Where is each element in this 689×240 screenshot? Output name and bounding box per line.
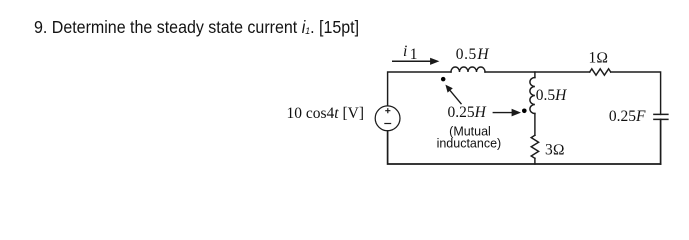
voltage source minus sign bbox=[384, 123, 391, 125]
svg-text:0.25F: 0.25F bbox=[609, 108, 646, 125]
resistor R2 3-ohm (middle, vertical) bbox=[531, 135, 538, 158]
svg-text:0.5H: 0.5H bbox=[456, 46, 490, 63]
coupling dot on L2 bbox=[522, 109, 527, 114]
svg-text:3Ω: 3Ω bbox=[545, 142, 565, 159]
label 0.25F bbox=[609, 108, 646, 125]
voltage source VS circle bbox=[375, 106, 400, 131]
mutual inductance arrow to L2 dot bbox=[493, 109, 521, 117]
svg-text:i: i bbox=[403, 43, 407, 60]
resistor R1 1-ohm (top right, horizontal) bbox=[590, 69, 611, 75]
wire middle branch bottom bbox=[534, 158, 536, 164]
svg-text:0.25H: 0.25H bbox=[448, 104, 487, 121]
svg-text:0.5H: 0.5H bbox=[536, 87, 567, 104]
capacitor C1 0.25F plates bbox=[654, 114, 668, 119]
label source 10 cos4t [V] bbox=[287, 105, 365, 122]
label 0.25H mutual bbox=[448, 104, 487, 121]
label 3-ohm bbox=[545, 142, 565, 159]
inductor L2 0.5H (middle, vertical) bbox=[530, 78, 535, 114]
label 1-ohm bbox=[589, 50, 609, 67]
svg-text:1: 1 bbox=[410, 46, 418, 63]
svg-text:10 cos4t [V]: 10 cos4t [V] bbox=[287, 105, 365, 122]
wire top-left segment bbox=[388, 72, 451, 106]
wire middle branch top bbox=[534, 72, 536, 78]
current arrow i1 bbox=[392, 58, 439, 65]
wire right-bottom segment bbox=[660, 119, 662, 164]
wire top-middle segment bbox=[485, 71, 590, 73]
wire top-right segment bbox=[611, 72, 661, 114]
wire bottom segment bbox=[388, 131, 661, 164]
label 0.5H (top inductor) bbox=[456, 46, 490, 63]
svg-text:1Ω: 1Ω bbox=[589, 50, 609, 67]
label 0.5H (vertical inductor) bbox=[536, 87, 567, 104]
inductor L1 0.5H (top, horizontal) bbox=[451, 67, 485, 72]
label (Mutual inductance) bbox=[437, 125, 502, 151]
voltage source plus sign bbox=[385, 108, 390, 113]
svg-text:inductance): inductance) bbox=[437, 137, 502, 151]
coupling dot on L1 bbox=[441, 77, 446, 82]
label i1 bbox=[403, 43, 417, 63]
mutual inductance arrow to L1 dot bbox=[445, 85, 461, 105]
wire middle branch mid bbox=[534, 114, 536, 136]
